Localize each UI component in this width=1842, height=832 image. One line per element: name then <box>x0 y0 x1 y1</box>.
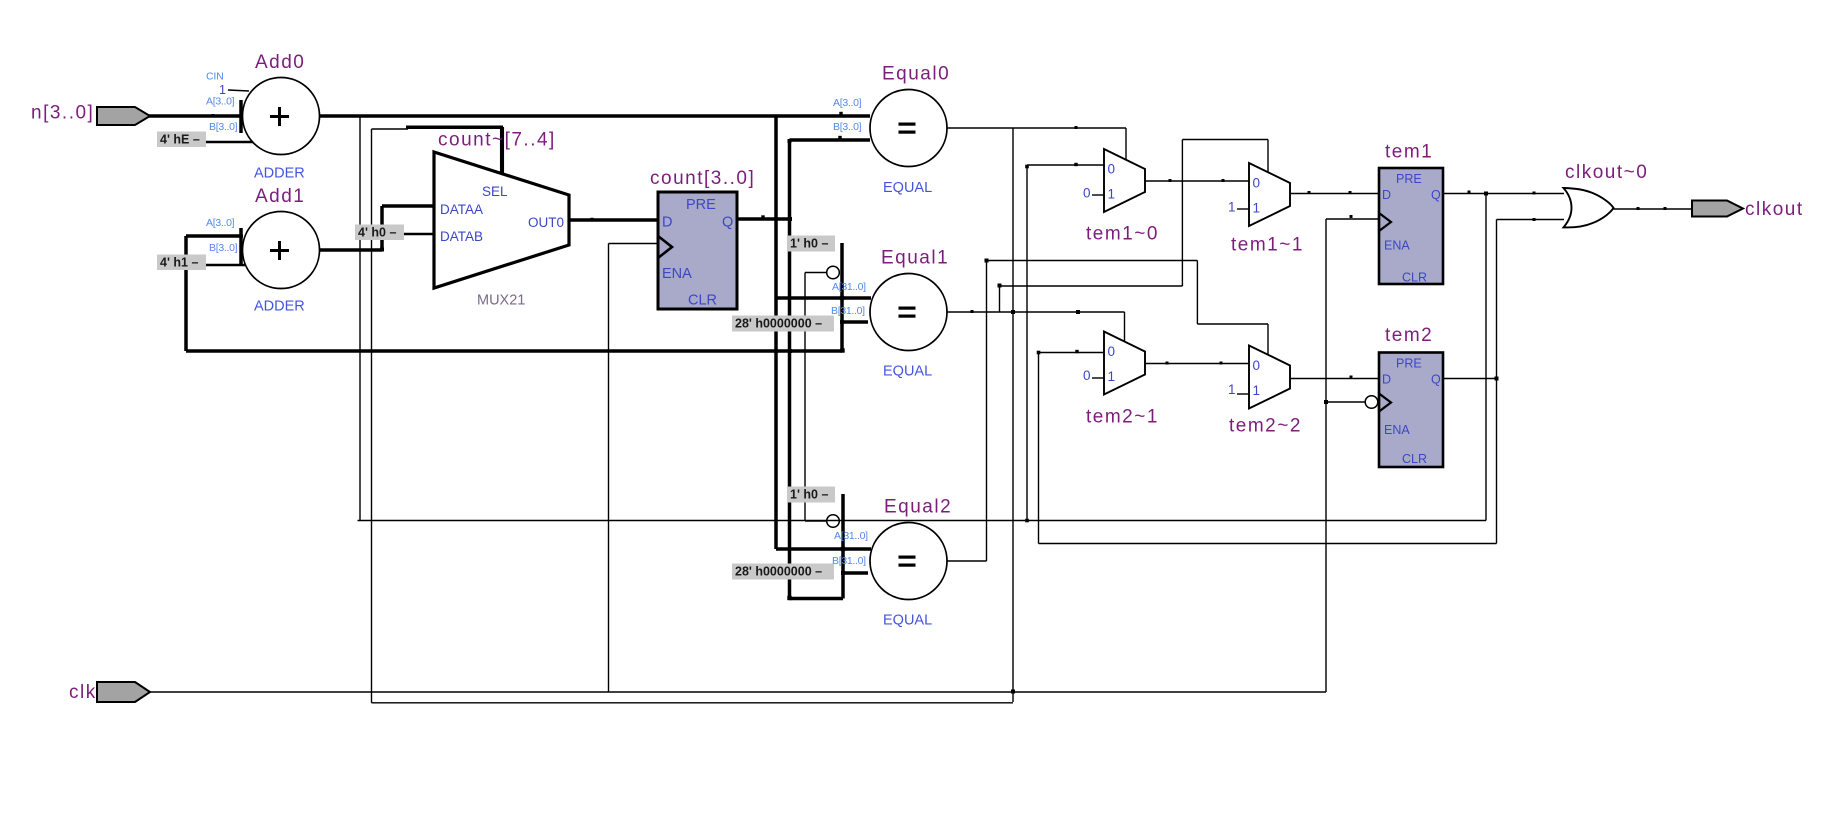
svg-text:0: 0 <box>1253 176 1261 191</box>
svg-text:PRE: PRE <box>686 197 716 213</box>
svg-text:1' h0 –: 1' h0 – <box>790 237 828 251</box>
svg-text:0: 0 <box>1083 368 1091 383</box>
svg-text:28' h0000000 –: 28' h0000000 – <box>735 565 822 579</box>
svg-text:A[3..0]: A[3..0] <box>206 96 235 108</box>
svg-text:4' h0 –: 4' h0 – <box>358 226 396 240</box>
svg-text:Q: Q <box>1431 188 1441 202</box>
svg-text:CIN: CIN <box>206 71 223 83</box>
svg-text:1: 1 <box>1108 187 1116 202</box>
svg-text:4' hE –: 4' hE – <box>160 133 200 147</box>
svg-text:1: 1 <box>1253 383 1261 398</box>
svg-text:0: 0 <box>1108 162 1116 177</box>
svg-text:tem2~1: tem2~1 <box>1086 407 1159 428</box>
svg-text:A[31..0]: A[31..0] <box>834 530 868 542</box>
svg-text:1: 1 <box>1108 369 1116 384</box>
svg-text:DATAB: DATAB <box>440 229 483 244</box>
svg-text:clkout: clkout <box>1745 199 1804 220</box>
svg-text:Equal0: Equal0 <box>882 64 950 85</box>
svg-text:OUT0: OUT0 <box>528 215 564 230</box>
svg-text:28' h0000000 –: 28' h0000000 – <box>735 317 822 331</box>
svg-text:tem2: tem2 <box>1385 325 1433 346</box>
svg-text:ADDER: ADDER <box>254 299 305 315</box>
svg-text:Q: Q <box>722 215 733 231</box>
svg-text:Add0: Add0 <box>255 52 305 73</box>
svg-text:B[31..0]: B[31..0] <box>831 305 865 317</box>
svg-text:clkout~0: clkout~0 <box>1565 162 1648 183</box>
svg-text:D: D <box>662 215 672 231</box>
svg-text:D: D <box>1382 188 1391 202</box>
svg-text:CLR: CLR <box>1402 271 1427 285</box>
svg-text:tem1: tem1 <box>1385 142 1433 163</box>
svg-text:count[3..0]: count[3..0] <box>650 168 755 189</box>
svg-text:0: 0 <box>1253 358 1261 373</box>
svg-text:CLR: CLR <box>1402 452 1427 466</box>
svg-text:0: 0 <box>1083 186 1091 201</box>
svg-text:1' h0 –: 1' h0 – <box>790 488 828 502</box>
svg-text:B[31..0]: B[31..0] <box>832 555 866 567</box>
svg-text:B[3..0]: B[3..0] <box>209 121 238 133</box>
svg-text:ENA: ENA <box>1384 423 1410 437</box>
svg-text:B[3..0]: B[3..0] <box>209 242 238 254</box>
svg-text:n[3..0]: n[3..0] <box>31 103 94 124</box>
svg-text:Equal2: Equal2 <box>884 497 952 518</box>
svg-text:clk: clk <box>69 682 97 703</box>
svg-text:1: 1 <box>1253 201 1261 216</box>
svg-text:tem1~0: tem1~0 <box>1086 224 1159 245</box>
svg-text:tem1~1: tem1~1 <box>1231 235 1304 256</box>
svg-text:0: 0 <box>1108 344 1116 359</box>
svg-text:ADDER: ADDER <box>254 166 305 182</box>
svg-text:ENA: ENA <box>662 266 692 282</box>
svg-text:tem2~2: tem2~2 <box>1229 416 1302 437</box>
svg-text:Equal1: Equal1 <box>881 248 949 269</box>
svg-text:EQUAL: EQUAL <box>883 613 932 629</box>
svg-text:CLR: CLR <box>688 293 717 309</box>
svg-text:A[31..0]: A[31..0] <box>832 281 866 293</box>
svg-text:A[3..0]: A[3..0] <box>206 217 235 229</box>
svg-text:B[3..0]: B[3..0] <box>833 121 862 133</box>
svg-text:Q: Q <box>1431 373 1441 387</box>
svg-text:1: 1 <box>1228 382 1236 397</box>
svg-text:4' h1 –: 4' h1 – <box>160 256 198 270</box>
svg-text:EQUAL: EQUAL <box>883 180 932 196</box>
svg-text:SEL: SEL <box>482 184 508 199</box>
svg-text:Add1: Add1 <box>255 186 305 207</box>
svg-text:1: 1 <box>1228 200 1236 215</box>
svg-text:EQUAL: EQUAL <box>883 364 932 380</box>
svg-text:ENA: ENA <box>1384 239 1410 253</box>
svg-text:A[3..0]: A[3..0] <box>833 97 862 109</box>
svg-text:count~[7..4]: count~[7..4] <box>438 130 556 151</box>
svg-text:DATAA: DATAA <box>440 202 483 217</box>
svg-text:PRE: PRE <box>1396 172 1422 186</box>
svg-text:MUX21: MUX21 <box>477 293 525 309</box>
svg-text:D: D <box>1382 373 1391 387</box>
svg-text:PRE: PRE <box>1396 357 1422 371</box>
